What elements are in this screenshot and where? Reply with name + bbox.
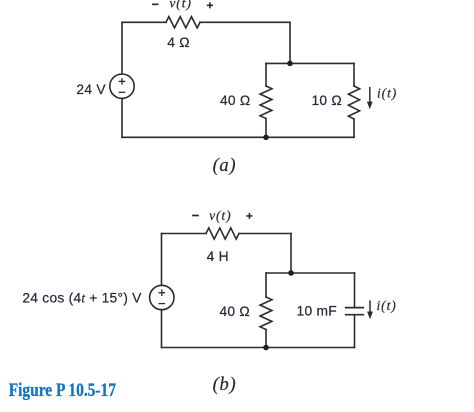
wire: circuit b, top-right segment (239, 233, 291, 235)
svg-text:10 mF: 10 mF (297, 304, 337, 319)
wire: circuit b, parallel top rail (266, 272, 355, 274)
junction dot: circuit a top node (287, 61, 293, 67)
source V1 minus sign (119, 91, 126, 93)
wire: circuit a, 40-ohm branch upper stub (265, 63, 267, 86)
svg-text:v(t): v(t) (209, 208, 231, 224)
wire: circuit a, 10-ohm branch lower stub (353, 119, 355, 137)
source V1 24V (circuit a) (110, 74, 134, 98)
svg-text:(a): (a) (213, 156, 237, 176)
label: minus sign of v(t) circuit a (152, 3, 158, 5)
svg-text:i(t): i(t) (377, 86, 397, 102)
svg-text:24 cos (4t + 15°) V: 24 cos (4t + 15°) V (22, 290, 142, 305)
wire: circuit b, capacitor branch upper stub (354, 273, 356, 307)
label: plus sign of v(t) circuit b (246, 213, 252, 219)
capacitor C1 10 mF plate top (346, 307, 364, 309)
svg-text:(b): (b) (213, 375, 237, 395)
wire: circuit a, top-right segment (200, 21, 290, 23)
wire: circuit a, left vertical below source (121, 98, 123, 137)
wire: circuit a, parallel top rail (266, 62, 354, 64)
svg-text:4 H: 4 H (207, 249, 229, 264)
wire: circuit a, 40-ohm branch lower stub (265, 119, 267, 138)
wire: circuit a, top-left segment (122, 21, 166, 23)
svg-text:Figure P 10.5-17: Figure P 10.5-17 (9, 379, 117, 400)
svg-text:i(t): i(t) (377, 298, 397, 314)
source V1 plus sign (119, 78, 165, 304)
junction dot: circuit b bottom node (263, 345, 269, 351)
caption: Figure P 10.5-17 (9, 379, 117, 400)
wire: circuit b, left vertical below source (161, 310, 163, 348)
svg-text:10 Ω: 10 Ω (312, 93, 343, 108)
svg-text:v(t): v(t) (169, 0, 191, 12)
source V2 24cos(4t+15) (circuit b) (150, 285, 174, 309)
wire: circuit a, bottom rail (122, 136, 354, 138)
svg-text:24 V: 24 V (76, 82, 106, 97)
wire: circuit b, bottom rail (162, 347, 355, 349)
junction dot: circuit b top node (288, 270, 294, 276)
label: plus sign of v(t) circuit a (207, 2, 213, 8)
resistor R4 40 ohm (circuit b) (260, 297, 272, 330)
wire: circuit a, left vertical above source (121, 22, 123, 74)
svg-text:40 Ω: 40 Ω (220, 304, 251, 319)
wire: circuit b, left vertical above source (161, 234, 163, 286)
wire: circuit b, capacitor branch lower stub (354, 315, 356, 348)
current arrow i(t) circuit a (367, 87, 373, 319)
svg-text:4 Ω: 4 Ω (167, 35, 190, 50)
svg-text:40 Ω: 40 Ω (220, 93, 251, 108)
resistor R1 4 ohm (circuit a) (166, 17, 200, 28)
wire: circuit b, 40-ohm branch lower stub (265, 330, 267, 348)
current arrow i(t) circuit b (369, 300, 371, 313)
wire: circuit a, 10-ohm branch upper stub (353, 63, 355, 86)
wire: circuit b, right vertical drop to node (290, 234, 292, 274)
source V2 plus sign (159, 292, 166, 294)
inductor L1 4 H (circuit b, drawn zigzag) (206, 228, 239, 239)
wire: circuit b, top-left segment (162, 233, 207, 235)
junction dot: circuit a bottom node (263, 135, 269, 141)
wire: circuit b, 40-ohm branch upper stub (265, 273, 267, 297)
capacitor C1 10 mF plate bottom (346, 314, 364, 316)
resistor R2 40 ohm (circuit a) (260, 86, 272, 119)
label: minus sign of v(t) circuit b (192, 215, 199, 217)
resistor R3 10 ohm (circuit a) (348, 86, 359, 119)
source V2 minus sign (159, 303, 166, 305)
wire: circuit a, right vertical drop to node (289, 22, 291, 63)
